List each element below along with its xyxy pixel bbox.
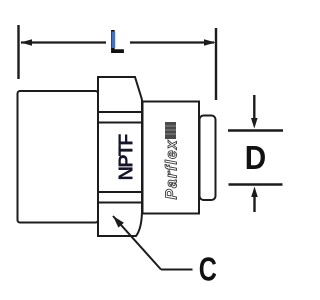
label L blue stem tint xyxy=(112,32,116,49)
fitting left pipe-thread body rectangle xyxy=(18,91,99,223)
leader line C horizontal segment xyxy=(161,269,193,271)
dimension L line left segment xyxy=(21,41,106,43)
svg-text:NPTF: NPTF xyxy=(116,134,138,181)
svg-text:D: D xyxy=(245,140,266,177)
hex flat lower band line 2 xyxy=(98,202,142,204)
dimension L left arrowhead xyxy=(21,39,33,46)
hex flat upper band line 1 xyxy=(98,111,142,113)
Parflex logo block xyxy=(165,122,176,139)
dimension D lower arrow shaft xyxy=(253,196,255,212)
dimension L right arrowhead xyxy=(204,39,216,46)
hex flat lower band line 1 xyxy=(98,191,142,193)
dimension L right extension line xyxy=(215,28,217,100)
dimension D upper arrow shaft xyxy=(253,95,255,119)
hex nut outline xyxy=(98,77,142,236)
hex flat upper band line 2 xyxy=(98,122,142,124)
svg-text:C: C xyxy=(199,251,217,288)
dimension L line right segment xyxy=(130,41,214,43)
collet body rectangle xyxy=(143,102,200,214)
svg-text:Parflex: Parflex xyxy=(164,139,181,199)
end cap rounded rectangle xyxy=(200,116,216,201)
dimension D upper bar xyxy=(228,129,283,132)
dimension L left extension line xyxy=(17,25,19,79)
dimension D lower bar xyxy=(229,183,283,186)
leader C arrowhead xyxy=(113,216,124,228)
dimension D lower arrowhead pointing up xyxy=(251,187,258,198)
leader line C diagonal segment xyxy=(113,216,161,270)
dimension D upper arrowhead pointing down xyxy=(251,118,258,129)
